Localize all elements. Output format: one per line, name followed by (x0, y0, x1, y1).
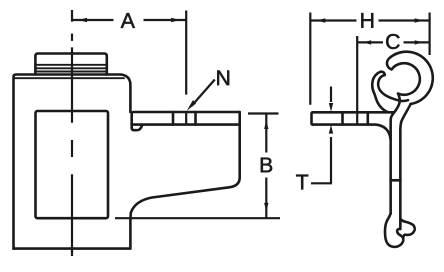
leg and slant (130, 112, 239, 218)
centerline (71, 10, 73, 256)
arrow T up (329, 125, 333, 134)
cap (35, 54, 106, 75)
ext H/C right (429, 13, 431, 56)
body flange lower line (14, 77, 125, 79)
ring tip U-turn (387, 57, 392, 69)
arrow B down (264, 203, 268, 212)
side hole tick 2 (366, 112, 369, 124)
arm plate (132, 112, 240, 125)
arrow A left (79, 18, 88, 22)
arrow C left (363, 40, 372, 44)
hole line left (172, 112, 175, 125)
window (36, 111, 109, 218)
cap line 2 (35, 67, 106, 69)
ext H left (309, 13, 311, 105)
leader curl outer (372, 72, 388, 113)
dim C line (357, 41, 429, 43)
side plate top edge (313, 111, 394, 114)
ring outer arc (391, 52, 433, 104)
label B (261, 158, 272, 173)
arrow C right (415, 40, 424, 44)
dim A line (72, 19, 186, 21)
label A (121, 13, 135, 28)
leg tick (391, 179, 401, 182)
ext B bottom / shelf (115, 217, 280, 219)
N leader (192, 80, 215, 107)
cap line 3 (35, 71, 106, 73)
side plate left end (312, 112, 314, 124)
label T (296, 175, 308, 190)
ext C left (356, 36, 358, 125)
leader curl cap (381, 72, 385, 75)
foot knob (400, 219, 414, 238)
ring tail outer / leg right edge (400, 104, 410, 228)
T arrow down shaft (330, 87, 332, 103)
ext line A right (185, 11, 187, 125)
label C (386, 34, 399, 49)
ring inner arc (392, 63, 420, 95)
label H (361, 13, 373, 28)
dim H line (310, 19, 429, 21)
T leader (311, 137, 331, 183)
dim B line (265, 114, 267, 219)
side hole tick 1 (341, 112, 344, 124)
arrowheads (79, 18, 424, 212)
label N (217, 70, 229, 85)
ext B top (248, 112, 279, 114)
cap line 1 (35, 64, 106, 66)
arrow A right (171, 18, 180, 22)
arrow B up (264, 121, 268, 130)
arrow T down (329, 103, 333, 112)
arrow H right (415, 18, 424, 22)
plate curl (132, 125, 143, 131)
body outline (14, 75, 131, 249)
arrow H left (317, 18, 326, 22)
side plate bottom edge (313, 125, 391, 139)
arrow N (187, 100, 196, 111)
foot hook (385, 214, 403, 247)
hole line right (194, 112, 197, 125)
ring tail inner / leg left edge (391, 94, 400, 214)
leader curl inner and jaw (378, 75, 408, 101)
